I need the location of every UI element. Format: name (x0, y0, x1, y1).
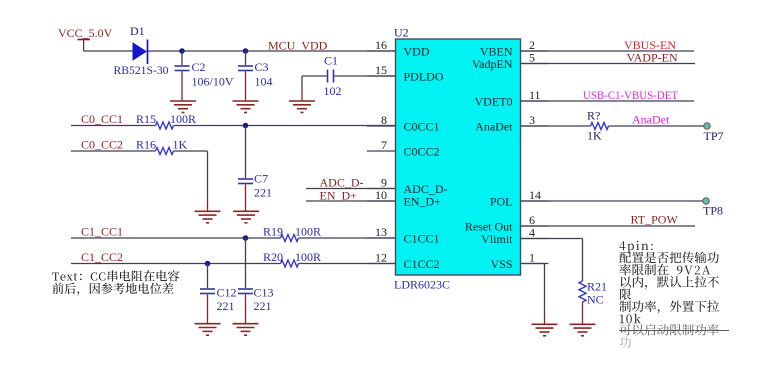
svg-text:VDET0: VDET0 (475, 95, 513, 109)
svg-text:Vlimit: Vlimit (481, 232, 513, 246)
wire AnaDet right (609, 125, 705, 127)
svg-text:R20: R20 (263, 250, 283, 264)
wire C1_CC2 (71, 263, 281, 265)
pin 4 stub (521, 238, 549, 240)
svg-text:C1: C1 (324, 54, 338, 68)
svg-text:14: 14 (529, 188, 541, 202)
ground below R21 (570, 324, 596, 336)
svg-text:10: 10 (375, 188, 387, 202)
ground below C3 (233, 101, 259, 113)
wire AnaDet left (521, 125, 591, 127)
test point TP8 (703, 198, 709, 204)
svg-text:C1CC2: C1CC2 (404, 257, 440, 271)
svg-text:U2: U2 (394, 26, 409, 40)
text note CC series resistors (52, 270, 179, 281)
pin 1 stub (521, 263, 549, 265)
svg-text:C2: C2 (192, 60, 206, 74)
svg-text:R15: R15 (136, 112, 156, 126)
svg-text:NC: NC (587, 293, 604, 307)
svg-text:TP8: TP8 (703, 204, 723, 218)
svg-text:3: 3 (529, 113, 535, 127)
resistor R20 (281, 260, 299, 267)
resistor R15 (156, 122, 174, 129)
svg-text:102: 102 (324, 84, 342, 98)
wire C0_CC2 to ground red (207, 203, 209, 211)
svg-text:LDR6023C: LDR6023C (394, 278, 450, 292)
pin 2 stub (521, 50, 549, 52)
capacitor C1 (328, 70, 334, 83)
wire Vlimit (521, 238, 583, 240)
svg-text:POL: POL (490, 195, 513, 209)
capacitor C12 (200, 289, 215, 294)
svg-text:VadpEN: VadpEN (472, 57, 513, 71)
wire C1 to pin 15 (335, 75, 396, 77)
pin 9 ADC_D- stub (367, 188, 396, 190)
ground below C13 (233, 324, 259, 336)
svg-text:16: 16 (375, 38, 387, 52)
wire C3 to ground (245, 71, 247, 101)
resistor R16 (156, 148, 174, 155)
svg-text:C0_CC2: C0_CC2 (81, 138, 123, 152)
wire C0_CC1 (71, 125, 156, 127)
wire C1 left to ground (302, 75, 327, 77)
wire POL to TP8 (521, 200, 704, 202)
svg-text:100R: 100R (295, 225, 321, 239)
svg-text:C13: C13 (254, 286, 274, 300)
capacitor C2 (175, 66, 190, 71)
svg-text:C1CC1: C1CC1 (404, 232, 440, 246)
svg-text:MCU_VDD: MCU_VDD (268, 39, 328, 53)
wire ADC_D- (306, 188, 396, 190)
wire VCC to D1 anode (84, 50, 133, 52)
pin 8 C0CC1 stub (367, 125, 396, 127)
svg-text:ADC_D-: ADC_D- (320, 176, 364, 190)
svg-text:R21: R21 (587, 280, 607, 294)
text note 4pin power limit (619, 241, 652, 253)
pin 7 C0CC2 stub (367, 150, 396, 152)
svg-text:R?: R? (587, 109, 600, 123)
svg-text:AnaDet: AnaDet (632, 113, 670, 127)
capacitor C13 (238, 289, 253, 294)
wire C2 top (181, 51, 183, 65)
svg-text:100R: 100R (295, 250, 321, 264)
svg-text:5: 5 (529, 51, 535, 65)
svg-text:C7: C7 (254, 172, 268, 186)
test point TP7 (704, 123, 710, 129)
wire RT_POW (521, 225, 696, 227)
resistor R19 (281, 235, 299, 242)
wire C3 top (245, 51, 247, 65)
wire C2 to ground (181, 71, 183, 101)
wire USB-C1-VBUS-DET (521, 100, 695, 102)
IC U2 LDR6023C body (396, 39, 521, 275)
svg-text:VADP-EN: VADP-EN (627, 51, 678, 65)
resistor R? (591, 123, 609, 130)
junction C1_CC2/C12 (205, 261, 211, 267)
svg-text:13: 13 (375, 225, 387, 239)
svg-text:VDD: VDD (404, 45, 430, 59)
pin 13 C1CC1 stub (367, 237, 396, 239)
artifact line over note (619, 330, 729, 332)
svg-text:221: 221 (217, 299, 235, 313)
wire C13 to ground (245, 294, 247, 323)
wire C12 top (207, 264, 209, 289)
capacitor C3 (238, 66, 253, 71)
svg-text:AnaDet: AnaDet (475, 120, 513, 134)
svg-text:1K: 1K (173, 138, 188, 152)
ground below C2 (170, 101, 196, 113)
wire C7 to ground (245, 184, 247, 211)
junction C0_CC1/C7 (243, 123, 249, 129)
pin 3 stub (521, 125, 549, 127)
wire C7 top (245, 126, 247, 179)
svg-text:USB-C1-VBUS-DET: USB-C1-VBUS-DET (583, 88, 679, 102)
wire R21 to ground (582, 302, 584, 324)
svg-text:C0CC1: C0CC1 (404, 120, 440, 134)
capacitor C7 (238, 179, 253, 184)
svg-text:R16: R16 (136, 138, 156, 152)
junction at C2 (179, 48, 185, 54)
pin 14 stub (521, 200, 549, 202)
svg-text:100R: 100R (170, 112, 196, 126)
svg-text:1: 1 (529, 251, 535, 265)
svg-text:RB521S-30: RB521S-30 (114, 63, 169, 77)
pin 16 VDD stub (367, 50, 396, 52)
wire VADP-EN (521, 63, 696, 65)
pin 15 PDLDO stub (367, 75, 396, 77)
svg-text:7: 7 (381, 138, 387, 152)
svg-text:PDLDO: PDLDO (404, 70, 444, 84)
svg-text:EN_D+: EN_D+ (404, 195, 442, 209)
svg-text:221: 221 (254, 186, 272, 200)
pin 5 stub (521, 63, 549, 65)
svg-text:D1: D1 (130, 24, 145, 38)
svg-text:1K: 1K (587, 129, 602, 143)
svg-text:C1_CC1: C1_CC1 (81, 225, 123, 239)
svg-text:R19: R19 (263, 225, 283, 239)
junction at C3 (243, 48, 249, 54)
svg-text:VCC_5.0V: VCC_5.0V (58, 26, 113, 40)
wire C12 to ground (207, 294, 209, 323)
ground below C0_CC2 (195, 211, 221, 223)
svg-text:15: 15 (375, 63, 387, 77)
pin 12 C1CC2 stub (367, 263, 396, 265)
svg-text:11: 11 (529, 88, 541, 102)
ground below VSS (532, 324, 558, 336)
wire C0_CC2 (71, 150, 156, 152)
wire VSS to ground red (544, 314, 546, 324)
ground below C1 (289, 101, 315, 113)
wire MCU_VDD rail (149, 50, 396, 52)
svg-text:C3: C3 (255, 60, 269, 74)
pin 10 EN_D+ stub (367, 200, 396, 202)
pin 6 stub (521, 225, 549, 227)
svg-text:TP7: TP7 (704, 129, 724, 143)
svg-text:12: 12 (375, 251, 387, 265)
wire C13 top (245, 238, 247, 288)
svg-text:221: 221 (254, 299, 272, 313)
svg-text:C0_CC1: C0_CC1 (81, 112, 123, 126)
wire VBUS-EN (521, 50, 695, 52)
svg-text:VSS: VSS (490, 257, 512, 271)
diode D1 RB521S-30 (133, 42, 148, 60)
ground below C7 (233, 211, 259, 223)
svg-text:104: 104 (255, 75, 273, 89)
ground below C12 (195, 324, 221, 336)
svg-text:106/10V: 106/10V (192, 75, 234, 89)
wire VSS (521, 263, 545, 265)
svg-text:4: 4 (529, 226, 535, 240)
svg-text:C12: C12 (217, 286, 237, 300)
resistor R21 (579, 281, 586, 302)
pin 11 stub (521, 100, 549, 102)
wire EN_D+ (306, 200, 396, 202)
wire C1_CC1 (71, 237, 281, 239)
svg-text:C1_CC2: C1_CC2 (81, 250, 123, 264)
junction C1_CC1/C13 (243, 235, 249, 241)
svg-text:RT_POW: RT_POW (631, 213, 679, 227)
svg-text:C0CC2: C0CC2 (404, 145, 440, 159)
